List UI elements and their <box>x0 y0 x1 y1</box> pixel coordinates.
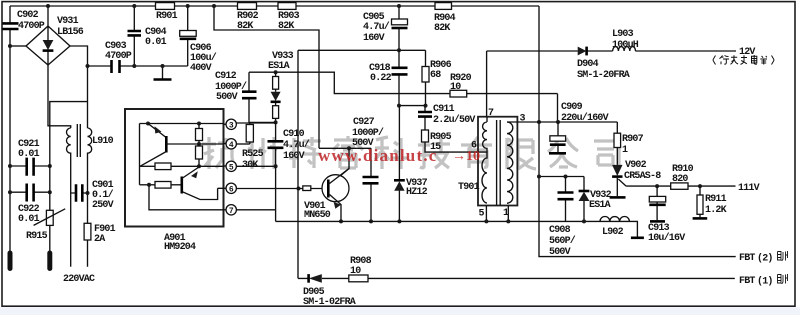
interior resistor row2 horizontal <box>140 184 156 186</box>
svg-text:10u/16V: 10u/16V <box>648 232 685 244</box>
snubber line y50 <box>298 49 426 51</box>
resistor R905 <box>422 130 429 142</box>
transformer T901 <box>478 117 517 206</box>
gray watermark pseudo-glyph 技 <box>418 137 450 168</box>
svg-text:400V: 400V <box>190 63 212 74</box>
pin5 stub <box>485 206 487 222</box>
svg-text:SM-1-02FRA: SM-1-02FRA <box>303 297 356 308</box>
svg-text:220VAC: 220VAC <box>63 274 95 285</box>
IC interior left vertical <box>139 124 141 185</box>
wire pin3 to V933 node <box>236 122 275 124</box>
capacitor C906 (electrolytic) <box>187 6 189 66</box>
svg-text:3: 3 <box>520 114 526 125</box>
aux line to V932/C908 <box>539 176 584 178</box>
interior resistor row1 horizontal <box>140 165 156 167</box>
gray watermark pseudo-glyph 司 <box>594 141 619 168</box>
gray watermark pseudo-glyph 睿 <box>333 136 363 168</box>
glyph jiao 1 <box>778 274 788 284</box>
inductor L903 100uH <box>613 47 636 51</box>
gray watermark pseudo-glyph 杭 <box>202 137 236 169</box>
svg-text:0.01: 0.01 <box>145 37 167 48</box>
resistor R902 <box>238 3 257 10</box>
svg-text:5: 5 <box>229 163 234 172</box>
svg-text:820: 820 <box>672 174 688 185</box>
svg-text:6: 6 <box>229 185 234 194</box>
wire collector jog <box>319 147 371 149</box>
svg-text:R911: R911 <box>705 194 727 205</box>
capacitor C908 560P <box>565 177 567 222</box>
svg-text:100uH: 100uH <box>612 40 639 51</box>
svg-text:1.2K: 1.2K <box>705 205 727 216</box>
svg-text:→10: →10 <box>452 149 480 164</box>
svg-text:0.22: 0.22 <box>370 73 392 84</box>
wire snubber to C909 node <box>557 94 559 122</box>
svg-text:(2): (2) <box>757 253 773 265</box>
wire pin5 node down to pin7 and emitter rail <box>275 166 277 221</box>
svg-text:(1): (1) <box>757 276 773 288</box>
capacitor C927 <box>370 148 372 221</box>
choke L910 <box>48 65 71 128</box>
svg-text:HM9204: HM9204 <box>164 242 196 253</box>
left AC wire <box>9 6 11 253</box>
primary winding upper <box>483 117 487 149</box>
wire pin4 <box>236 143 250 145</box>
diode D904 SM-1-20FRA <box>578 47 587 56</box>
top B+ wire <box>10 5 539 7</box>
resistor R525 30K <box>249 123 251 144</box>
interior resistor lower vertical <box>198 144 200 166</box>
clamp wire from B+ down to V901 collector <box>214 6 319 148</box>
svg-text:220u/160V: 220u/160V <box>561 112 609 124</box>
svg-text:5: 5 <box>479 209 485 220</box>
svg-text:C911: C911 <box>433 104 455 115</box>
svg-text:C910: C910 <box>283 129 305 140</box>
svg-text:L902: L902 <box>602 227 624 238</box>
svg-text:7: 7 <box>229 207 234 216</box>
svg-text:C902: C902 <box>17 10 39 21</box>
diode V902 CR5AS-8 <box>612 165 622 176</box>
svg-text:HZ12: HZ12 <box>406 187 428 198</box>
svg-text:D904: D904 <box>577 59 599 70</box>
svg-text:FBT: FBT <box>739 276 755 287</box>
svg-text:ES1A: ES1A <box>268 61 290 72</box>
glyph jiao 2 <box>778 251 788 261</box>
resistor R903 <box>278 3 296 10</box>
zener V937 HZ12 <box>398 106 400 222</box>
bottom page strip <box>0 307 800 315</box>
svg-text:C909: C909 <box>561 102 583 113</box>
AC2 line y66 <box>88 65 188 67</box>
svg-text:250V: 250V <box>92 200 114 211</box>
svg-text:500V: 500V <box>549 247 571 258</box>
svg-text:4.7u/: 4.7u/ <box>283 139 310 151</box>
svg-text:3: 3 <box>229 121 234 130</box>
svg-text:C912: C912 <box>215 71 237 82</box>
ground bar for AC2 line <box>162 66 164 79</box>
varistor R915 <box>46 210 53 225</box>
wire pin6 base line <box>236 188 328 190</box>
transistor V901 MN650 <box>322 175 349 202</box>
capacitor C910 <box>275 122 277 166</box>
resistor R904 <box>435 3 452 10</box>
FBT(1) line with D905 and R908 <box>298 277 735 279</box>
capacitor C911 <box>424 106 426 130</box>
capacitor C902 <box>3 23 19 29</box>
svg-text:FBT: FBT <box>739 253 755 264</box>
svg-text:C908: C908 <box>549 225 571 236</box>
resistor R901 <box>156 3 175 10</box>
transistor Q2 (NPN) inside IC <box>181 177 184 194</box>
svg-text:10: 10 <box>450 82 461 93</box>
svg-text:V931: V931 <box>57 16 79 27</box>
svg-text:SM-1-20FRA: SM-1-20FRA <box>577 70 630 81</box>
AC X-cap C921 <box>10 165 50 167</box>
interior resistor upper vertical <box>198 124 200 145</box>
resistor R911 1.2K <box>699 186 701 217</box>
bridge rectifier V931 LB156 <box>26 26 70 65</box>
svg-text:68: 68 <box>430 70 441 81</box>
svg-text:560P/: 560P/ <box>549 235 576 247</box>
111V line <box>626 185 735 187</box>
svg-text:500V: 500V <box>216 92 238 103</box>
IC interior top rail <box>140 123 224 125</box>
capacitor C904 <box>133 6 135 66</box>
AC plug prong 1 <box>8 253 13 269</box>
inductor L902 <box>600 216 629 221</box>
AC plug prong 2 <box>47 253 52 269</box>
svg-text:LB156: LB156 <box>57 27 84 38</box>
capacitor C918 <box>398 50 400 105</box>
svg-text:10: 10 <box>350 266 361 277</box>
emitter / ground rail <box>276 221 638 236</box>
wire bridge top to B+ <box>47 6 49 26</box>
svg-text:CR5AS-8: CR5AS-8 <box>624 171 661 182</box>
wire pin5 <box>236 165 275 167</box>
svg-text:L903: L903 <box>612 29 634 40</box>
pin 3 <box>224 123 227 125</box>
IC interior riser to pin7 <box>149 185 224 210</box>
gray watermark pseudo-glyph 有 <box>461 137 492 168</box>
svg-text:4.7u/: 4.7u/ <box>363 21 390 33</box>
IC A901 HM9204 <box>125 109 224 227</box>
capacitor C901 <box>71 192 88 194</box>
svg-text:160V: 160V <box>283 151 305 162</box>
svg-text:30K: 30K <box>242 160 258 171</box>
pin 6 <box>224 187 227 189</box>
gray watermark pseudo-glyph 州 <box>248 137 277 169</box>
svg-text:82K: 82K <box>434 23 450 34</box>
resistor R920 <box>450 90 467 97</box>
wire D904 line <box>487 50 736 52</box>
secondary winding <box>507 122 513 203</box>
wire bridge left vertex <box>10 45 26 47</box>
capacitor C912 <box>249 72 276 122</box>
svg-text:ES1A: ES1A <box>589 200 611 211</box>
pin1 stub <box>507 206 509 222</box>
label (hang qi dong dian yuan) for 12V <box>713 55 774 65</box>
svg-text:4: 4 <box>229 141 234 150</box>
svg-text:R901: R901 <box>156 11 178 22</box>
capacitor C909 (electrolytic) <box>557 122 559 152</box>
svg-text:1: 1 <box>622 145 628 156</box>
resistor R907 <box>616 122 618 165</box>
svg-text:T901: T901 <box>458 182 480 193</box>
diode V932 ES1A <box>583 177 585 192</box>
svg-text:7: 7 <box>488 108 494 119</box>
svg-text:R525: R525 <box>242 149 264 160</box>
label (2)jiao <box>757 253 773 265</box>
AC2 branch wire <box>50 102 88 253</box>
transformer core <box>497 120 501 205</box>
pin3 output line <box>507 121 617 123</box>
svg-text:MN650: MN650 <box>304 210 331 221</box>
svg-text:2A: 2A <box>94 234 105 245</box>
gray watermark pseudo-glyph 将 <box>289 137 321 168</box>
label (1)jiao <box>757 276 773 288</box>
svg-text:2.2u/50V: 2.2u/50V <box>433 114 475 126</box>
gray watermark pseudo-glyph 限 <box>507 138 536 169</box>
drop from B+ to pin3 line and FBT2 <box>539 6 736 257</box>
wire L910 right down through fuse <box>87 155 89 267</box>
svg-text:160V: 160V <box>363 33 385 44</box>
svg-text:R907: R907 <box>622 134 644 145</box>
svg-text:V902: V902 <box>625 160 647 171</box>
wire bridge right vertex to AC2 <box>70 46 88 128</box>
snubber top line y72 <box>249 72 558 93</box>
svg-text:C927: C927 <box>353 117 375 128</box>
svg-text:4700P: 4700P <box>18 21 45 32</box>
AC X-cap C922 <box>10 191 50 193</box>
svg-text:4700P: 4700P <box>105 51 132 62</box>
capacitor C913 (electrolytic) <box>656 186 658 220</box>
capacitor C905 (electrolytic) <box>398 6 400 50</box>
gray watermark pseudo-glyph 科 <box>375 137 408 169</box>
gray watermark pseudo-glyph 公 <box>548 138 578 167</box>
transistor Q1 (PNP) inside IC <box>148 124 166 138</box>
ferrite bead on base <box>303 186 311 191</box>
diode V933 ES1A <box>274 70 278 74</box>
wire L910 left down to AC terminal <box>70 155 72 267</box>
wire pin7 <box>236 209 275 211</box>
svg-text:0.01: 0.01 <box>18 149 40 160</box>
svg-text:111V: 111V <box>738 183 760 194</box>
fuse F901 2A <box>84 223 91 240</box>
capacitor C903 <box>112 60 120 73</box>
resistor R910 820 <box>671 183 688 189</box>
svg-text:R915: R915 <box>26 231 48 242</box>
svg-text:L910: L910 <box>92 136 114 147</box>
resistor R906 <box>425 50 427 105</box>
pin 5 <box>224 165 227 167</box>
primary winding lower <box>478 149 487 203</box>
pin 4 <box>224 143 227 145</box>
feedback vertical from snubber to base and R908 <box>297 50 299 278</box>
svg-text:www.dianlut.c: www.dianlut.c <box>318 146 438 165</box>
pin 7 <box>224 209 227 211</box>
